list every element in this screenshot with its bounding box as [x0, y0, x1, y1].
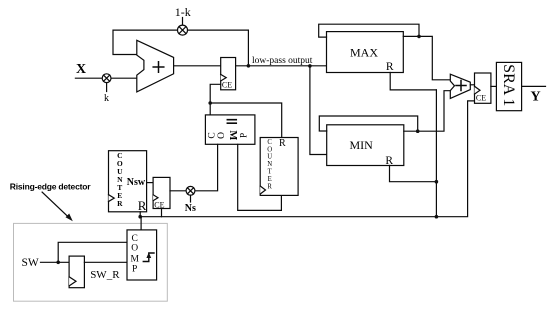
svg-text:N: N — [267, 161, 272, 168]
svg-text:low-pass output: low-pass output — [252, 56, 313, 66]
node junction min-in — [308, 64, 312, 68]
adder U1 — [137, 40, 174, 92]
svg-text:SW: SW — [22, 257, 39, 269]
wire reset vertical — [435, 90, 437, 217]
wire comp top — [209, 103, 211, 115]
wire counter2 reset — [210, 103, 282, 138]
wire adder1 output — [174, 65, 221, 67]
wire MIN out to adder — [418, 91, 451, 132]
node junction comp — [208, 101, 212, 105]
svg-text:CE: CE — [222, 81, 232, 90]
node MIN R join — [435, 180, 439, 184]
multiplier Ns — [186, 186, 195, 195]
node MIN out — [416, 129, 420, 133]
wire reg2 out — [170, 190, 191, 192]
wire MIN R — [390, 166, 437, 182]
wire counter1 reset — [139, 212, 141, 217]
wire counter1 out — [147, 182, 154, 184]
node bus left — [138, 215, 142, 219]
svg-text:O: O — [267, 146, 272, 153]
block SRA1 — [496, 62, 521, 110]
wire MAX out to adder — [419, 36, 450, 79]
node SW — [56, 261, 60, 265]
counter CNT1 Nsw — [109, 151, 147, 213]
svg-text:SW_R: SW_R — [90, 269, 120, 281]
svg-text:R: R — [279, 138, 286, 149]
svg-text:E: E — [268, 176, 272, 183]
multiplier k — [102, 74, 111, 83]
svg-text:C: C — [267, 139, 272, 146]
register REG1 — [221, 58, 236, 90]
node bus right — [435, 215, 439, 219]
svg-text:U: U — [267, 154, 272, 161]
wire Y output — [522, 85, 546, 87]
wire lowpass to MIN — [310, 66, 327, 155]
svg-text:CE: CE — [154, 201, 164, 210]
wire reg3 out — [491, 85, 497, 87]
svg-text:O: O — [217, 132, 227, 139]
wire reset bus — [140, 101, 474, 217]
wire reg2 bottom — [161, 209, 163, 217]
register REG3 — [475, 73, 491, 103]
wire reg1 CE — [210, 84, 221, 103]
wire SW input — [41, 261, 70, 263]
svg-text:P: P — [239, 133, 249, 138]
wire FF out — [84, 261, 127, 263]
wire feedback 1-k — [113, 30, 248, 66]
svg-text:O: O — [131, 244, 138, 254]
box rising-edge detector — [14, 223, 168, 301]
svg-text:M: M — [130, 254, 139, 264]
flip-flop SW_R — [69, 256, 84, 288]
svg-text:Y: Y — [531, 90, 541, 105]
wire MIN loop — [319, 116, 417, 131]
block MIN — [327, 125, 404, 167]
wire comp out left — [191, 144, 218, 191]
svg-text:MAX: MAX — [350, 46, 378, 60]
svg-text:Nsw: Nsw — [127, 177, 146, 188]
node MAX out — [417, 35, 421, 39]
svg-text:1-k: 1-k — [175, 5, 191, 19]
node junction lowpass — [247, 64, 251, 68]
wire MAX R — [390, 73, 436, 90]
svg-text:SRA 1: SRA 1 — [500, 64, 517, 106]
svg-text:M: M — [227, 130, 238, 140]
arrow pointer — [42, 192, 73, 221]
wire low-pass output — [236, 65, 327, 67]
wire k stub — [106, 83, 108, 92]
svg-text:MIN: MIN — [350, 138, 374, 152]
wire MAX loop — [319, 24, 419, 37]
svg-text:C: C — [207, 132, 217, 138]
wire comp out right — [238, 144, 282, 210]
svg-text:R: R — [267, 183, 272, 190]
svg-text:Rising-edge detector: Rising-edge detector — [10, 182, 91, 192]
wire comp2 out — [140, 217, 142, 230]
block MAX — [327, 32, 404, 74]
wire Ns stub — [190, 195, 192, 202]
adder U2 — [450, 74, 470, 98]
svg-text:k: k — [104, 93, 109, 104]
svg-text:R: R — [117, 199, 123, 208]
register REG2 — [153, 177, 170, 209]
counter CNT2 — [260, 138, 298, 196]
multiplier 1-k — [178, 25, 188, 35]
wire adder2 out — [470, 84, 474, 86]
svg-text:C: C — [132, 234, 138, 244]
svg-text:R: R — [386, 61, 394, 73]
wire X input — [75, 77, 136, 79]
comparator COMP1 — [205, 115, 255, 144]
svg-text:Ns: Ns — [185, 203, 196, 214]
svg-text:R: R — [138, 198, 147, 213]
svg-text:X: X — [76, 62, 86, 77]
comparator COMP2 — [127, 230, 157, 280]
svg-text:CE: CE — [476, 93, 486, 102]
wire 1-k stub — [182, 18, 184, 25]
svg-text:P: P — [132, 265, 137, 275]
wire SW bypass — [58, 242, 127, 262]
